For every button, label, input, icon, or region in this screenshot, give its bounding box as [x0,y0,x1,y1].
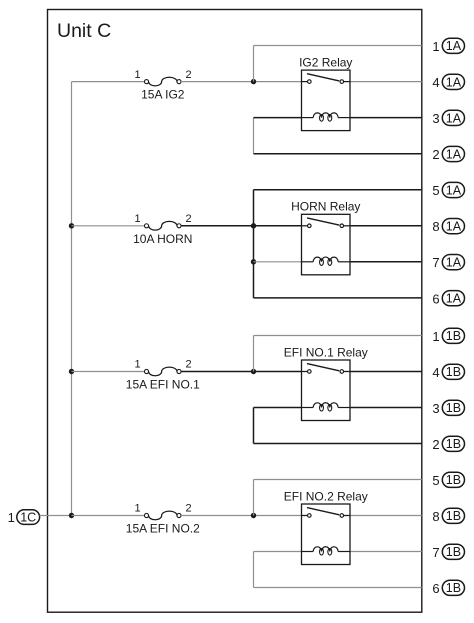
wire: bus to fuse 15A EFI NO.1 pin 1 [72,371,145,373]
wire: relay coil output to connector pin 7 1A [350,261,422,263]
svg-text:1A: 1A [446,256,462,270]
junction on bus at EFI NO.2 fuse row [69,513,74,518]
svg-text:1A: 1A [446,39,462,53]
connector pin 8 of connector 1A [432,219,464,235]
svg-text:7: 7 [432,545,439,560]
wire: riser from top branch down to fuse-output junction [253,46,255,82]
svg-text:1: 1 [134,359,140,371]
svg-text:4: 4 [432,365,439,380]
wire: coil branch left of relay [254,407,302,409]
connector pin 2 of connector 1A [432,146,464,162]
relay EFI NO.1 Relay [302,360,351,421]
wire: relay switch output to connector pin 4 1B [350,371,422,373]
svg-text:6: 6 [432,291,439,306]
junction on bus at EFI NO.1 fuse row [69,369,74,374]
connector pin 8 of connector 1B [432,508,464,524]
svg-text:1: 1 [134,69,140,81]
connector pin 1 of connector 1A [432,38,464,54]
svg-text:1A: 1A [446,183,462,197]
fuse 10A HORN [144,221,181,230]
svg-text:5: 5 [432,183,439,198]
connector pin 4 of connector 1B [432,364,464,380]
relay block / junction box Unit C outline [48,10,422,613]
wire: fuse 10A HORN pin 2 to junction [181,225,253,227]
wire: top branch to connector pin 1 1B [254,335,422,337]
svg-text:15A EFI NO.1: 15A EFI NO.1 [126,378,200,392]
svg-text:15A IG2: 15A IG2 [141,88,185,102]
junction node at fuse output [251,369,256,374]
connector pin 1 of connector 1B [432,328,464,344]
wire: junction to relay box [254,81,302,83]
connector pin 5 of connector 1A [432,182,464,198]
wire: bottom branch to connector pin 2 1B [254,443,422,445]
svg-text:1: 1 [432,39,439,54]
wire: coil branch left of relay [254,261,302,263]
connector pin 4 of connector 1A [432,74,464,90]
svg-text:1B: 1B [446,473,461,487]
svg-text:1B: 1B [446,365,461,379]
connector pin 6 of connector 1B [432,580,464,596]
svg-text:2: 2 [432,437,439,452]
wire: riser from coil branch down to bottom branch [253,118,255,154]
svg-text:2: 2 [185,359,191,371]
wire: riser from top branch down to bottom branch [253,190,255,298]
svg-text:1A: 1A [446,292,462,306]
wire: bus to fuse 15A IG2 pin 1 [72,81,145,83]
wire: riser from top branch down to fuse-output junction [253,336,255,372]
svg-text:1: 1 [134,503,140,515]
junction on bus at HORN fuse row [69,223,74,228]
fuse 15A EFI NO.1 [144,367,181,376]
svg-text:3: 3 [432,111,439,126]
svg-text:2: 2 [185,503,191,515]
svg-text:1B: 1B [446,509,461,523]
svg-text:Unit C: Unit C [57,20,111,42]
svg-text:1B: 1B [446,545,461,559]
wire: junction to relay box [254,371,302,373]
wire: junction to relay box [254,225,302,227]
svg-text:2: 2 [185,69,191,81]
junction node at fuse output [251,223,256,228]
wire: relay switch output to connector pin 8 1A [350,225,422,227]
svg-text:1B: 1B [446,581,461,595]
wire: bottom branch to connector pin 6 1B [254,587,422,589]
wire: relay coil output to connector pin 3 1B [350,407,422,409]
connector pin 2 of connector 1B [432,436,464,452]
fuse 15A IG2 [144,77,181,86]
relay IG2 Relay [302,70,351,131]
svg-text:7: 7 [432,255,439,270]
wire: feed from connector 1C into Unit C [40,515,72,517]
junction node at fuse output [251,513,256,518]
wire: riser from coil branch down to bottom branch [253,408,255,444]
svg-text:1B: 1B [446,329,461,343]
svg-text:1A: 1A [446,111,462,125]
relay EFI NO.2 Relay [302,504,351,565]
svg-text:1: 1 [8,510,15,525]
wire: junction to relay box [254,515,302,517]
svg-text:3: 3 [432,401,439,416]
wire: fuse 15A EFI NO.2 pin 2 to junction [181,515,253,517]
svg-text:1C: 1C [20,511,36,525]
connector pin 1 of connector 1C (battery feed) [8,510,40,525]
wire: riser from coil branch down to bottom branch [253,552,255,588]
svg-text:10A HORN: 10A HORN [133,232,192,246]
svg-text:6: 6 [432,581,439,596]
wire: fuse 15A EFI NO.1 pin 2 to junction [181,371,253,373]
svg-text:1A: 1A [446,147,462,161]
svg-text:2: 2 [432,147,439,162]
wire: bus to fuse 15A EFI NO.2 pin 1 [72,515,145,517]
wire: relay coil output to connector pin 7 1B [350,551,422,553]
svg-text:15A EFI NO.2: 15A EFI NO.2 [126,522,200,536]
svg-text:5: 5 [432,473,439,488]
wire: relay coil output to connector pin 3 1A [350,117,422,119]
svg-text:1: 1 [134,213,140,225]
svg-text:HORN Relay: HORN Relay [291,200,360,214]
wire: bottom branch to connector pin 2 1A [254,153,422,155]
svg-text:1A: 1A [446,75,462,89]
wire: left power bus (vertical) [71,82,73,516]
wire: relay switch output to connector pin 4 1A [350,81,422,83]
svg-text:8: 8 [432,509,439,524]
junction node at fuse output [251,79,256,84]
connector pin 7 of connector 1A [432,255,464,271]
wire: bottom branch to connector pin 6 1A [254,297,422,299]
relay HORN Relay [302,214,351,274]
svg-text:2: 2 [185,213,191,225]
junction node on riser at coil row [251,259,256,264]
wire: top branch to connector pin 5 1A [254,189,422,191]
svg-text:EFI NO.1 Relay: EFI NO.1 Relay [284,345,368,359]
svg-text:1B: 1B [446,401,461,415]
wire: top branch to connector pin 1 1A [254,45,422,47]
svg-text:EFI NO.2 Relay: EFI NO.2 Relay [284,489,368,503]
wire: top branch to connector pin 5 1B [254,479,422,481]
svg-text:IG2 Relay: IG2 Relay [299,55,352,69]
connector pin 5 of connector 1B [432,472,464,488]
wire: fuse 15A IG2 pin 2 to junction [181,81,253,83]
wire: relay switch output to connector pin 8 1B [350,515,422,517]
wire: bus to fuse 10A HORN pin 1 [72,225,145,227]
connector pin 6 of connector 1A [432,291,464,307]
connector pin 7 of connector 1B [432,544,464,560]
wire: riser from top branch down to fuse-output junction [253,480,255,516]
fuse 15A EFI NO.2 [144,511,181,520]
wire: coil branch left of relay [254,551,302,553]
svg-text:8: 8 [432,219,439,234]
svg-text:4: 4 [432,75,439,90]
connector pin 3 of connector 1A [432,110,464,126]
connector pin 3 of connector 1B [432,400,464,416]
wire: coil branch left of relay [254,117,302,119]
svg-text:1A: 1A [446,220,462,234]
svg-text:1: 1 [432,329,439,344]
svg-text:1B: 1B [446,437,461,451]
